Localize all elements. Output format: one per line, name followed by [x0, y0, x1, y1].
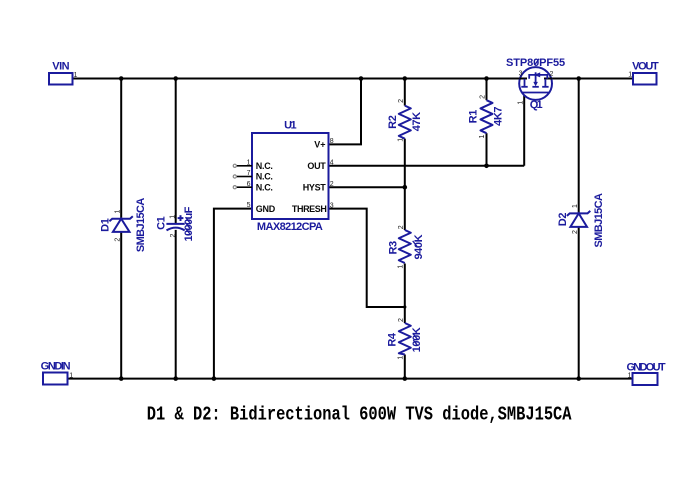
wire Q1 gate lead: [523, 94, 525, 166]
svg-text:4: 4: [330, 160, 334, 167]
svg-text:VOUT: VOUT: [632, 60, 659, 72]
connector GNDOUT box: [633, 373, 658, 385]
wire V+ pin8 to top rail: [329, 79, 362, 145]
svg-text:N.C.: N.C.: [256, 172, 273, 182]
wire C1 branch upper: [175, 79, 177, 224]
wire R2 top lead: [404, 79, 406, 106]
resistor R2 47K zigzag: [399, 106, 411, 139]
connector VIN box: [49, 73, 73, 85]
svg-text:C1: C1: [155, 216, 167, 230]
svg-text:5: 5: [247, 202, 251, 209]
svg-text:R3: R3: [387, 241, 399, 255]
svg-text:2: 2: [572, 230, 579, 234]
wire OUT pin4 to gate node: [329, 165, 525, 167]
svg-text:1: 1: [397, 356, 404, 360]
wire top rail VIN to VOUT: [72, 78, 634, 80]
junction dot top rail C1: [173, 76, 178, 81]
svg-text:MAX8212CPA: MAX8212CPA: [257, 221, 323, 233]
svg-text:R1: R1: [468, 110, 480, 124]
svg-text:Q1: Q1: [530, 99, 543, 111]
wire R4 bottom lead: [404, 355, 406, 379]
wire R3 bottom lead: [404, 264, 406, 308]
junction dot bottom rail D2: [576, 376, 581, 381]
junction dot bottom rail R4: [403, 376, 408, 381]
svg-text:N.C.: N.C.: [256, 182, 273, 192]
svg-text:GNDOUT: GNDOUT: [626, 362, 665, 374]
svg-text:OUT: OUT: [307, 161, 326, 171]
junction dot OUT/R1: [484, 164, 489, 169]
junction dot bottom rail D1: [119, 376, 124, 381]
U1 N.C. stub pin1: [237, 165, 253, 167]
svg-text:2: 2: [398, 225, 405, 229]
junction dot top rail R2: [403, 76, 408, 81]
resistor R4 100K zigzag: [399, 323, 411, 355]
wire R1 bottom lead: [486, 133, 488, 166]
junction dot THRESH/R3/R4: [403, 305, 406, 308]
svg-text:1000uF: 1000uF: [183, 206, 195, 241]
svg-text:2: 2: [398, 99, 405, 103]
junction dot bottom rail C1: [173, 376, 178, 381]
svg-text:2: 2: [170, 234, 177, 238]
wire GND pin5 to bottom rail: [214, 209, 252, 379]
svg-text:THRESH: THRESH: [292, 204, 327, 214]
wire R3 top lead from HYST node: [404, 187, 406, 230]
svg-text:GND: GND: [256, 204, 276, 214]
wire D1 branch upper: [120, 79, 122, 219]
wire R1 top lead: [486, 79, 488, 101]
svg-text:1: 1: [628, 72, 632, 79]
U1 N.C. stub pin7: [237, 176, 253, 178]
svg-text:1: 1: [114, 209, 121, 213]
wire bottom rail GNDIN to GNDOUT: [67, 378, 633, 380]
svg-text:N.C.: N.C.: [256, 161, 273, 171]
svg-text:4K7: 4K7: [493, 107, 505, 126]
svg-text:D1 & D2: Bidirectional 600W TV: D1 & D2: Bidirectional 600W TVS diode,SM…: [147, 404, 572, 426]
svg-text:1: 1: [479, 135, 486, 139]
svg-text:SMBJ15CA: SMBJ15CA: [593, 193, 605, 248]
svg-text:1: 1: [517, 101, 524, 105]
capacitor C1 symbol: [166, 215, 184, 230]
svg-text:3: 3: [519, 70, 523, 77]
svg-text:2: 2: [550, 71, 554, 78]
resistor R1 4K7 zigzag: [481, 100, 493, 133]
wire D2 branch upper: [578, 79, 580, 214]
connector VOUT box: [633, 73, 657, 85]
wire D1 branch lower: [120, 232, 122, 379]
wire C1 branch lower: [175, 230, 177, 379]
svg-text:2: 2: [398, 318, 405, 322]
svg-text:HYST: HYST: [303, 182, 327, 192]
connector GNDIN box: [43, 373, 68, 385]
diode D2 SMBJ15CA symbol: [567, 211, 590, 227]
svg-text:2: 2: [480, 95, 487, 99]
svg-text:2: 2: [115, 238, 122, 242]
svg-text:8: 8: [330, 138, 334, 145]
diode D1 SMBJ15CA symbol: [109, 216, 132, 232]
svg-text:1: 1: [170, 215, 177, 219]
svg-text:1: 1: [572, 204, 579, 208]
wire D2 branch lower: [578, 227, 580, 379]
wire R4 top lead: [404, 307, 406, 323]
wire HYST pin2 to R2/R3 node: [329, 186, 405, 188]
svg-text:1: 1: [74, 72, 78, 79]
svg-text:47K: 47K: [411, 112, 423, 131]
svg-text:R4: R4: [387, 332, 399, 347]
wire R2 bottom lead to HYST node: [404, 139, 406, 188]
wire THRESH pin3 to R3/R4 node: [329, 209, 405, 307]
junction dot top rail D1: [119, 76, 124, 81]
transistor Q1 STP80PF55 p-MOSFET: [519, 67, 552, 100]
svg-text:SMBJ15CA: SMBJ15CA: [135, 198, 147, 253]
slashed zero marks: [186, 59, 540, 346]
U1 N.C. stub pin6: [237, 186, 253, 188]
junction dot top rail D2: [576, 76, 581, 81]
svg-text:VIN: VIN: [52, 60, 69, 72]
svg-text:2: 2: [330, 181, 334, 188]
junction dot top rail V+ riser: [359, 76, 364, 81]
svg-text:1: 1: [69, 372, 73, 379]
resistor R3 940K zigzag: [399, 230, 411, 263]
svg-text:1: 1: [397, 265, 404, 269]
svg-text:D2: D2: [557, 213, 569, 227]
svg-text:D1: D1: [100, 218, 112, 232]
svg-text:1: 1: [628, 373, 632, 380]
svg-text:R2: R2: [387, 115, 399, 129]
svg-text:3: 3: [330, 202, 334, 209]
svg-text:GNDIN: GNDIN: [41, 360, 71, 372]
junction dot bottom rail GND wire: [212, 376, 217, 381]
svg-text:940K: 940K: [413, 234, 425, 259]
svg-text:1: 1: [397, 138, 404, 142]
junction dot top rail R1: [484, 76, 489, 81]
svg-text:V+: V+: [314, 140, 325, 150]
op-amp U1 MAX8212CPA box: [252, 133, 329, 219]
svg-text:U1: U1: [284, 120, 296, 132]
junction dot HYST/R2/R3: [403, 185, 408, 190]
svg-text:100K: 100K: [411, 327, 423, 352]
